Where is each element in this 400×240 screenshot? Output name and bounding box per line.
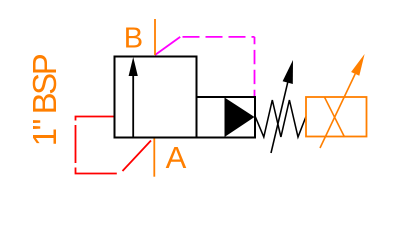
svg-text:A: A [166, 140, 187, 175]
svg-text:B: B [124, 23, 143, 55]
svg-text:1" BSP: 1" BSP [26, 54, 63, 146]
